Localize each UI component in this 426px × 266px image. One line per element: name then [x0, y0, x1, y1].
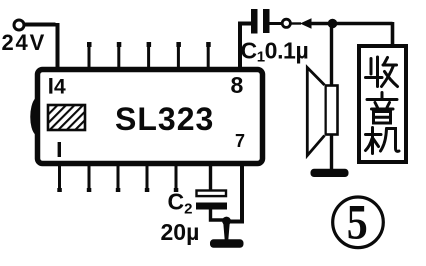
svg-text:C2: C2	[168, 189, 193, 218]
svg-text:8: 8	[231, 72, 244, 98]
svg-text:20µ: 20µ	[161, 219, 200, 245]
svg-text:7: 7	[235, 131, 245, 151]
svg-text:5: 5	[347, 194, 368, 250]
svg-text:SL323: SL323	[115, 101, 214, 137]
svg-text:24V: 24V	[2, 30, 47, 55]
svg-text:C10.1µ: C10.1µ	[241, 38, 309, 66]
svg-text:4: 4	[54, 76, 66, 99]
